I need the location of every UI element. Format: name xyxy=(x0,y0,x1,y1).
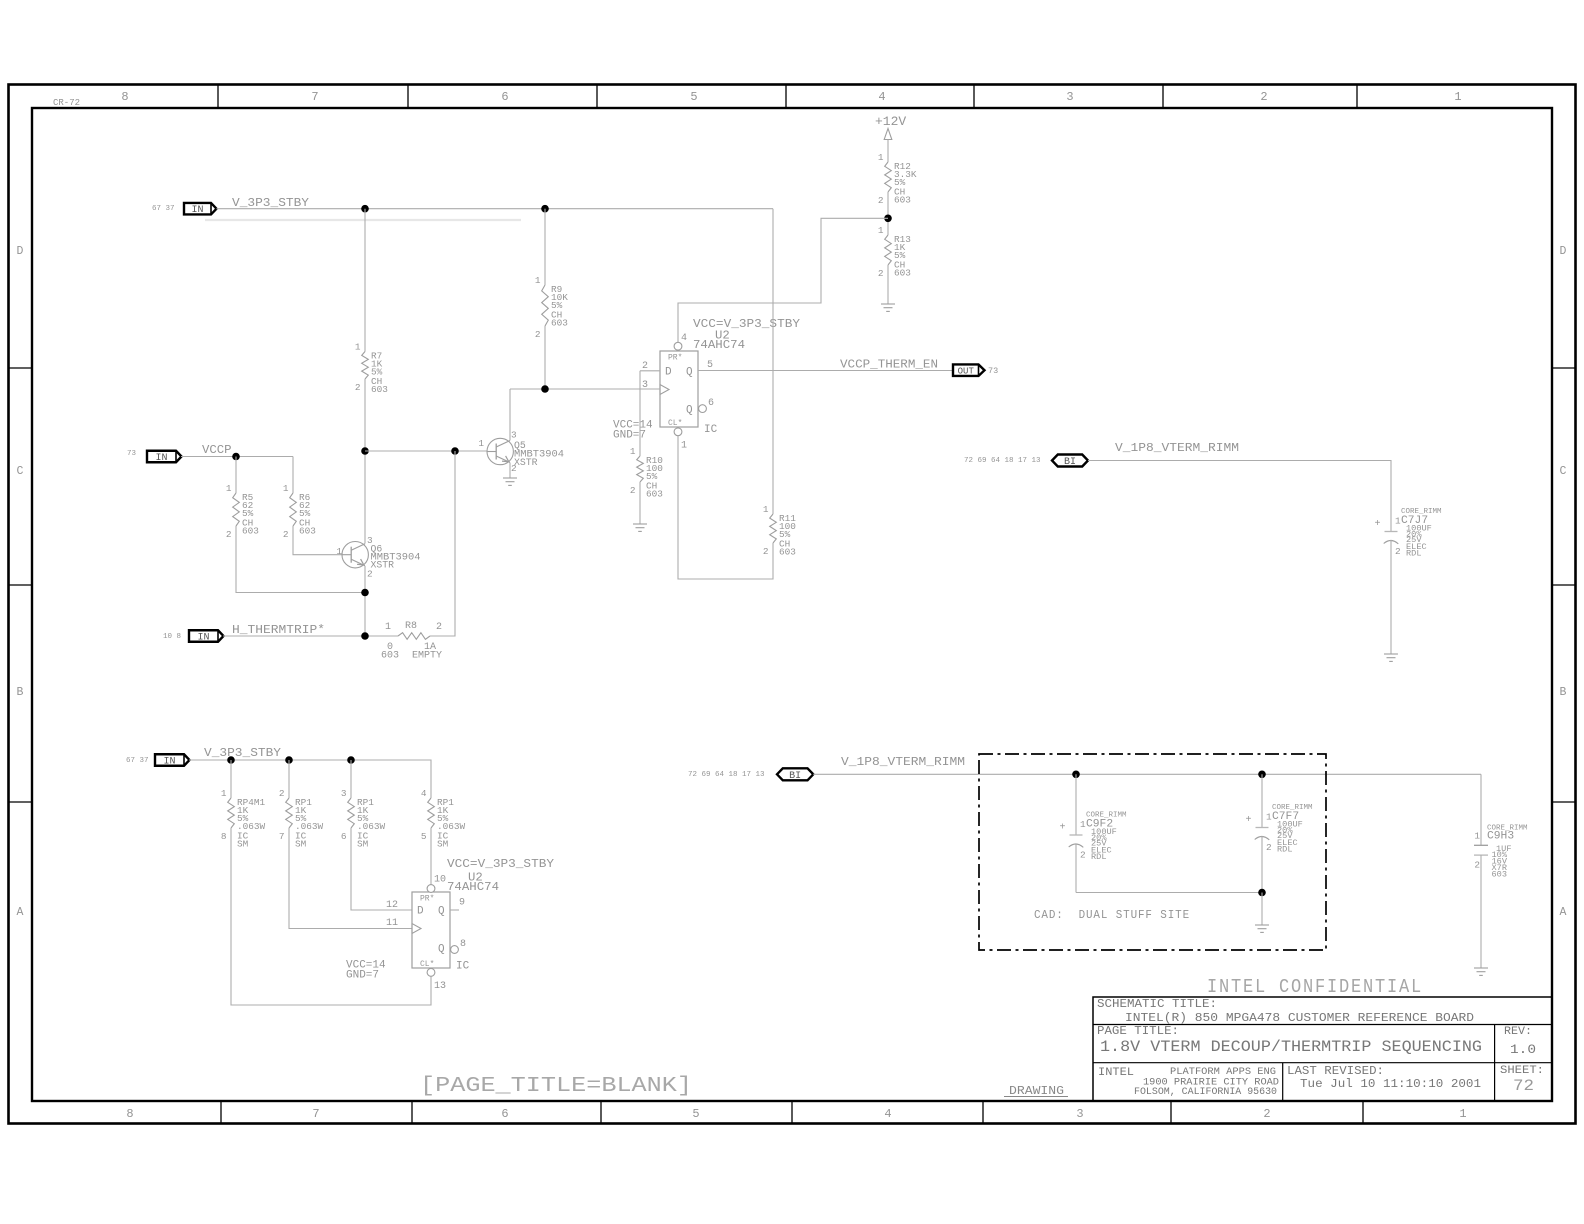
svg-text:D: D xyxy=(417,906,424,918)
junction cap ground xyxy=(1258,889,1266,897)
svg-text:RDL: RDL xyxy=(1277,845,1292,855)
svg-text:R8: R8 xyxy=(405,621,417,632)
U2b CL bubble xyxy=(427,969,435,977)
svg-text:1.0: 1.0 xyxy=(1510,1042,1536,1057)
svg-text:6: 6 xyxy=(708,398,714,409)
svg-text:RDL: RDL xyxy=(1406,549,1421,559)
svg-text:CL*: CL* xyxy=(420,960,434,969)
svg-text:3: 3 xyxy=(367,535,373,546)
wire to ground dual site xyxy=(1261,893,1263,926)
svg-text:1: 1 xyxy=(681,441,687,452)
capacitor C7F7 100UF xyxy=(1245,774,1313,892)
svg-text:GND=7: GND=7 xyxy=(346,970,379,982)
junction RP4M1 xyxy=(227,756,235,764)
resistor R11 100 xyxy=(763,504,796,558)
svg-text:A: A xyxy=(1560,906,1567,919)
resistor R12 3.3K xyxy=(878,152,917,206)
svg-text:SM: SM xyxy=(357,839,369,850)
svg-text:67 37: 67 37 xyxy=(126,757,149,765)
svg-text:7: 7 xyxy=(311,90,318,104)
svg-text:2: 2 xyxy=(630,485,636,496)
svg-text:V_3P3_STBY: V_3P3_STBY xyxy=(204,746,282,760)
wire Q6 collector xyxy=(364,451,366,544)
svg-text:SCHEMATIC TITLE:: SCHEMATIC TITLE: xyxy=(1097,997,1217,1011)
svg-text:603: 603 xyxy=(779,547,796,558)
svg-text:+: + xyxy=(1059,823,1065,834)
wire RP1d to PR xyxy=(430,828,432,885)
wire Q5 collector to clock line xyxy=(509,389,511,440)
svg-text:B: B xyxy=(1560,686,1567,699)
svg-text:13: 13 xyxy=(434,981,446,992)
resistor R5 62 xyxy=(226,483,259,540)
svg-text:PAGE TITLE:: PAGE TITLE: xyxy=(1097,1024,1179,1038)
svg-text:5: 5 xyxy=(690,90,697,104)
label DRAWING xyxy=(1004,1085,1068,1098)
U2b PR bubble xyxy=(427,885,435,893)
resistor R13 1K xyxy=(878,225,911,279)
junction RP1 b xyxy=(285,756,293,764)
svg-text:6: 6 xyxy=(501,90,508,104)
svg-text:2: 2 xyxy=(355,382,361,393)
node V_3P3_STBY input xyxy=(184,203,217,216)
svg-text:1: 1 xyxy=(878,225,884,236)
svg-text:1: 1 xyxy=(283,483,289,494)
resistor R10 100 xyxy=(630,446,663,500)
svg-text:[PAGE_TITLE=BLANK]: [PAGE_TITLE=BLANK] xyxy=(420,1075,692,1098)
svg-text:1: 1 xyxy=(1474,831,1480,842)
U2b Q stub xyxy=(450,909,459,911)
svg-text:8: 8 xyxy=(221,831,227,842)
svg-text:2: 2 xyxy=(436,622,442,633)
svg-text:SM: SM xyxy=(437,839,449,850)
svg-text:11: 11 xyxy=(386,918,398,929)
svg-text:Tue Jul 10 11:10:10 2001: Tue Jul 10 11:10:10 2001 xyxy=(1300,1078,1481,1091)
capacitor C9F2 100UF xyxy=(1059,774,1127,892)
wire R10 to ground xyxy=(639,482,641,524)
svg-text:Q: Q xyxy=(686,405,693,417)
svg-text:V_1P8_VTERM_RIMM: V_1P8_VTERM_RIMM xyxy=(1115,441,1239,455)
svg-text:+12V: +12V xyxy=(875,114,906,129)
svg-text:603: 603 xyxy=(551,318,568,329)
U2 pin 6 bubble xyxy=(699,405,707,413)
transistor Q6 MMBT3904 xyxy=(342,542,368,568)
svg-text:4: 4 xyxy=(421,788,427,799)
svg-text:10: 10 xyxy=(434,875,446,886)
resistor R7 1K xyxy=(355,342,388,396)
junction emitter R5 xyxy=(361,589,369,597)
title block xyxy=(1093,997,1552,1101)
svg-text:1: 1 xyxy=(336,546,342,557)
wire ghost echo xyxy=(205,219,521,221)
wire Q5 emitter xyxy=(509,463,511,478)
wire V_3P3_STBY to R11 xyxy=(772,209,774,514)
wire R9 top lead xyxy=(544,209,546,285)
svg-text:1.8V VTERM DECOUP/THERMTRIP SE: 1.8V VTERM DECOUP/THERMTRIP SEQUENCING xyxy=(1100,1038,1482,1056)
svg-text:INTEL CONFIDENTIAL: INTEL CONFIDENTIAL xyxy=(1207,976,1423,998)
U2 pin 4 PR bubble xyxy=(674,342,682,350)
svg-text:2: 2 xyxy=(1260,90,1267,104)
svg-text:+: + xyxy=(1374,519,1380,530)
svg-text:10 8: 10 8 xyxy=(163,633,181,641)
svg-text:2: 2 xyxy=(1266,842,1272,853)
svg-text:72 69 64 18 17 13: 72 69 64 18 17 13 xyxy=(688,771,765,779)
svg-text:1: 1 xyxy=(385,622,391,633)
junction C9F2 xyxy=(1072,771,1080,779)
svg-text:IN: IN xyxy=(163,757,175,768)
ground below R13 xyxy=(881,304,895,311)
svg-text:6: 6 xyxy=(501,1107,508,1121)
svg-text:IN: IN xyxy=(197,633,209,644)
svg-text:D: D xyxy=(17,245,24,258)
svg-text:9: 9 xyxy=(459,898,465,909)
svg-text:603: 603 xyxy=(646,489,663,500)
svg-text:SHEET:: SHEET: xyxy=(1500,1065,1544,1077)
svg-text:2: 2 xyxy=(1474,860,1480,871)
node H_THERMTRIP input xyxy=(189,630,224,643)
U2 pin 2 D stub xyxy=(640,370,660,372)
svg-text:7: 7 xyxy=(312,1107,319,1121)
transistor Q5 MMBT3904 xyxy=(487,438,513,464)
wire RP1c to D xyxy=(351,828,412,910)
wire clock line to U2 xyxy=(510,388,660,390)
svg-text:C9H3: C9H3 xyxy=(1487,831,1514,843)
svg-text:B: B xyxy=(17,686,24,699)
svg-text:2: 2 xyxy=(763,546,769,557)
svg-text:VCCP: VCCP xyxy=(202,443,232,457)
svg-text:3: 3 xyxy=(1066,90,1073,104)
svg-text:2: 2 xyxy=(511,463,517,474)
svg-text:PR*: PR* xyxy=(668,354,682,363)
svg-text:Q: Q xyxy=(438,906,445,918)
svg-text:1: 1 xyxy=(763,504,769,515)
svg-text:D: D xyxy=(1560,245,1567,258)
wire Q6 emitter xyxy=(364,566,366,636)
svg-text:VCC=V_3P3_STBY: VCC=V_3P3_STBY xyxy=(693,317,801,331)
resistor R9 10K xyxy=(535,275,568,340)
svg-text:BI: BI xyxy=(1064,457,1076,468)
svg-text:INTEL(R) 850 MPGA478 CUSTOMER: INTEL(R) 850 MPGA478 CUSTOMER REFERENCE … xyxy=(1125,1011,1474,1025)
wire VCCP horizontal xyxy=(181,456,293,458)
capacitor C9H3 1UF xyxy=(1474,774,1528,968)
svg-text:4: 4 xyxy=(878,90,885,104)
svg-text:LAST REVISED:: LAST REVISED: xyxy=(1287,1064,1384,1078)
wire R9 bottom lead xyxy=(544,326,546,389)
svg-text:IC: IC xyxy=(456,961,470,973)
svg-text:67 37: 67 37 xyxy=(152,205,175,213)
svg-text:2: 2 xyxy=(878,268,884,279)
wire V_3P3_STBY lower horizontal xyxy=(189,760,431,798)
wire R5 top lead xyxy=(235,457,237,494)
svg-text:603: 603 xyxy=(242,526,259,537)
wire RP4M1 top lead xyxy=(230,760,232,798)
wire R11 to U2 CL xyxy=(678,436,773,579)
svg-text:74AHC74: 74AHC74 xyxy=(447,880,499,894)
ground below Q5 xyxy=(503,478,517,485)
wire V_1P8_VTERM_RIMM lower horizontal xyxy=(813,773,1481,775)
svg-text:REV:: REV: xyxy=(1504,1026,1532,1038)
svg-text:VCC=V_3P3_STBY: VCC=V_3P3_STBY xyxy=(447,857,555,871)
junction R9 clock xyxy=(541,385,549,393)
svg-text:GND=7: GND=7 xyxy=(613,430,646,442)
node V_1P8_VTERM_RIMM bidir A xyxy=(777,768,813,782)
svg-text:4: 4 xyxy=(884,1107,891,1121)
junction R8 riser xyxy=(451,447,459,455)
svg-text:BI: BI xyxy=(789,771,801,782)
svg-text:2: 2 xyxy=(1395,546,1401,557)
op U2 74AHC74 flip-flop xyxy=(660,351,698,428)
svg-text:2: 2 xyxy=(279,788,285,799)
svg-text:2: 2 xyxy=(1263,1107,1270,1121)
svg-text:1: 1 xyxy=(1454,90,1461,104)
svg-text:1: 1 xyxy=(221,788,227,799)
svg-text:Q: Q xyxy=(438,944,445,956)
svg-text:A: A xyxy=(17,906,24,919)
ground below C9H3 xyxy=(1474,968,1488,975)
svg-text:2: 2 xyxy=(367,569,373,580)
svg-text:1: 1 xyxy=(478,438,484,449)
wire RP4M1 to CL xyxy=(231,828,431,1005)
resistor RP4M1 1K xyxy=(221,788,266,850)
svg-text:603: 603 xyxy=(894,195,911,206)
wire +12V to R12 xyxy=(887,140,889,163)
wire H_THERMTRIP horizontal xyxy=(223,635,398,637)
svg-text:1: 1 xyxy=(355,342,361,353)
wire R12 to junction xyxy=(887,192,889,235)
junction C7F7 xyxy=(1258,771,1266,779)
svg-text:SM: SM xyxy=(295,839,307,850)
capacitor C7J7 100UF xyxy=(1374,508,1442,654)
junction R12/R13 xyxy=(884,215,892,223)
svg-text:7: 7 xyxy=(279,831,285,842)
svg-text:XSTR: XSTR xyxy=(371,560,395,571)
svg-text:4: 4 xyxy=(681,333,687,344)
svg-text:FOLSOM, CALIFORNIA 95630: FOLSOM, CALIFORNIA 95630 xyxy=(1134,1087,1277,1098)
junction at R9 top xyxy=(541,205,549,213)
svg-text:5: 5 xyxy=(707,360,713,371)
wire cap bottoms xyxy=(1076,892,1262,894)
svg-text:CR-72: CR-72 xyxy=(53,98,80,108)
junction VCCP R5 xyxy=(232,453,240,461)
wire V_3P3_STBY horizontal xyxy=(217,208,774,210)
wire R6 bottom to Q6 base xyxy=(293,526,342,555)
svg-text:VCCP_THERM_EN: VCCP_THERM_EN xyxy=(840,358,938,372)
wire R5 bottom to emitter node xyxy=(236,526,365,593)
ground dual stuff xyxy=(1255,925,1269,932)
svg-text:72 69 64 18 17 13: 72 69 64 18 17 13 xyxy=(964,457,1041,465)
svg-text:2: 2 xyxy=(1080,850,1086,861)
resistor RP1 b 1K xyxy=(279,788,324,850)
resistor RP1 c 1K xyxy=(341,788,386,850)
svg-text:1: 1 xyxy=(878,152,884,163)
wire R13 to ground xyxy=(887,265,889,304)
wire RP1c top lead xyxy=(350,760,352,798)
svg-text:+: + xyxy=(1245,815,1251,826)
svg-text:V_3P3_STBY: V_3P3_STBY xyxy=(232,196,310,210)
op U2 74AHC74 flip-flop lower xyxy=(412,892,450,969)
ground below C7J7 xyxy=(1384,654,1398,661)
svg-text:6: 6 xyxy=(341,831,347,842)
junction H_THERMTRIP emitter xyxy=(361,632,369,640)
wire R8 to riser xyxy=(430,451,455,636)
wire R7 bottom lead xyxy=(364,379,366,451)
svg-text:IC: IC xyxy=(704,424,718,436)
svg-text:8: 8 xyxy=(126,1107,133,1121)
svg-text:3: 3 xyxy=(511,430,517,441)
svg-text:8: 8 xyxy=(460,939,466,950)
U2 CL bubble xyxy=(674,428,682,436)
svg-text:72: 72 xyxy=(1513,1077,1534,1095)
svg-text:3: 3 xyxy=(1076,1107,1083,1121)
svg-text:603: 603 xyxy=(1492,870,1507,880)
svg-text:IN: IN xyxy=(191,205,203,216)
svg-text:OUT: OUT xyxy=(958,367,975,377)
wire RP1b top lead xyxy=(288,760,290,798)
svg-text:Q: Q xyxy=(686,367,693,379)
svg-text:1: 1 xyxy=(1459,1107,1466,1121)
node VCCP_THERM_EN output xyxy=(953,364,985,376)
U2 pin 5 Q wire to OUT xyxy=(698,370,953,372)
svg-text:5: 5 xyxy=(421,831,427,842)
resistor R8 0 ohm xyxy=(381,621,442,662)
svg-text:12: 12 xyxy=(386,900,398,911)
U2b Qbar bubble xyxy=(451,946,459,954)
wire R6 top lead xyxy=(292,457,294,494)
svg-text:PR*: PR* xyxy=(420,895,434,904)
junction RP1 c xyxy=(347,756,355,764)
wire RP1b to clock xyxy=(289,828,412,929)
svg-text:73: 73 xyxy=(127,450,137,458)
svg-text:2: 2 xyxy=(878,195,884,206)
svg-text:603: 603 xyxy=(299,526,316,537)
node V_1P8_VTERM_RIMM bidir C xyxy=(1052,455,1088,469)
wire Q5 base horizontal xyxy=(365,450,487,452)
svg-text:XSTR: XSTR xyxy=(514,457,538,468)
power +12V xyxy=(875,114,906,140)
wire R7 top lead xyxy=(364,209,366,352)
svg-text:C: C xyxy=(17,465,24,478)
svg-text:H_THERMTRIP*: H_THERMTRIP* xyxy=(232,623,325,637)
svg-text:2: 2 xyxy=(283,529,289,540)
svg-text:C: C xyxy=(1560,465,1567,478)
svg-text:V_1P8_VTERM_RIMM: V_1P8_VTERM_RIMM xyxy=(841,755,965,769)
svg-text:73: 73 xyxy=(988,366,998,376)
svg-text:8: 8 xyxy=(121,90,128,104)
svg-text:1: 1 xyxy=(226,483,232,494)
wire V_1P8_VTERM_RIMM to C7J7 xyxy=(1088,461,1391,532)
junction at R7 top xyxy=(361,205,369,213)
svg-text:SM: SM xyxy=(237,839,249,850)
svg-text:2: 2 xyxy=(535,329,541,340)
svg-text:CAD: DUAL STUFF SITE: CAD: DUAL STUFF SITE xyxy=(1034,908,1190,922)
svg-text:3: 3 xyxy=(341,788,347,799)
svg-text:2: 2 xyxy=(642,361,648,372)
svg-text:CL*: CL* xyxy=(668,419,682,428)
svg-text:EMPTY: EMPTY xyxy=(412,651,442,662)
wire D pin to R10 xyxy=(639,371,641,456)
svg-text:1: 1 xyxy=(630,446,636,457)
junction Q5 base node R7 xyxy=(361,447,369,455)
dual stuff dashed box xyxy=(979,754,1326,950)
wire +12V divider to U2 PR xyxy=(678,218,888,342)
svg-text:603: 603 xyxy=(894,268,911,279)
node V_3P3_STBY input lower xyxy=(155,754,190,767)
ground below R10 xyxy=(633,524,647,531)
node VCCP input xyxy=(147,451,182,464)
svg-text:RDL: RDL xyxy=(1091,852,1106,862)
resistor R6 62 xyxy=(283,483,316,540)
resistor RP1 d 1K xyxy=(421,788,466,850)
svg-text:74AHC74: 74AHC74 xyxy=(693,338,745,352)
svg-text:INTEL: INTEL xyxy=(1098,1067,1134,1079)
svg-text:D: D xyxy=(665,367,672,379)
svg-text:5: 5 xyxy=(692,1107,699,1121)
svg-text:603: 603 xyxy=(381,651,399,662)
svg-text:IN: IN xyxy=(155,453,167,464)
svg-text:PLATFORM APPS ENG: PLATFORM APPS ENG xyxy=(1170,1067,1276,1078)
svg-text:1: 1 xyxy=(535,275,541,286)
svg-text:603: 603 xyxy=(371,384,388,395)
svg-text:2: 2 xyxy=(226,529,232,540)
